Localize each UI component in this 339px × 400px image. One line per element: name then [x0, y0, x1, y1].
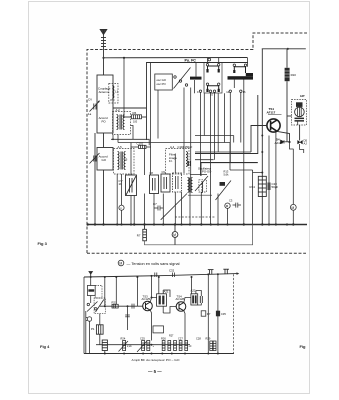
resistor bottom row r3: [147, 341, 150, 351]
capacitor on rail 1: [208, 270, 214, 275]
node rail dots: [261, 135, 263, 137]
transformer A5 dashed box: [114, 149, 135, 175]
meter M3: [225, 203, 230, 208]
transformer FI1 secondary: [208, 86, 219, 92]
link osc line: [188, 194, 212, 196]
svg-text:C7: C7: [153, 202, 157, 206]
svg-text:C101: C101: [137, 141, 144, 145]
capacitor C9: [233, 203, 242, 208]
wire FC input: [113, 107, 147, 109]
wire D4 down: [290, 142, 294, 149]
speaker cone circle: [295, 107, 305, 117]
wire C101: [131, 146, 139, 148]
resistor R21: [112, 304, 118, 308]
wire PU drop: [90, 277, 92, 286]
svg-text:osc PO: osc PO: [157, 82, 167, 86]
svg-text:Antenne: Antenne: [99, 90, 110, 94]
meter M4: [290, 204, 296, 210]
transformer output: [191, 294, 198, 305]
capacitor C33: [200, 296, 202, 303]
wire TS3 emitter: [150, 310, 151, 340]
wire main vertical rail: [261, 49, 263, 225]
filter A4 dashed box: [166, 149, 190, 175]
wire R10 vertical: [286, 49, 288, 68]
link gang diagonal 1: [161, 194, 187, 220]
svg-text:P1: P1: [91, 327, 95, 331]
wire TS1 base: [251, 126, 267, 153]
transformer driver: [157, 294, 167, 306]
jack PU input: [89, 272, 92, 278]
wire driver sec: [162, 306, 164, 313]
diode D7: [201, 311, 206, 316]
speaker HP dashed box: [292, 100, 307, 126]
svg-text:AF117: AF117: [267, 110, 276, 114]
svg-text:C32: C32: [169, 269, 175, 273]
transistor TS4: [176, 302, 186, 312]
node rail junction R10: [287, 48, 289, 50]
wire base line: [100, 305, 143, 307]
note tension: [118, 260, 124, 266]
resistor bottom row r5: [168, 341, 171, 351]
capacitor C30 on drop: [125, 315, 130, 317]
resistor bottom row r1: [123, 341, 126, 351]
wire fig4 mid bus: [96, 344, 190, 346]
svg-text:L1: L1: [115, 90, 119, 94]
svg-text:R6: R6: [133, 111, 137, 115]
svg-text:C3: C3: [229, 199, 233, 203]
meter M5: [172, 232, 178, 238]
svg-text:R27: R27: [169, 335, 174, 338]
fig4 right dashed edge: [233, 274, 235, 353]
jack ecouteur: [87, 317, 91, 321]
capacitor bottom row c6c: [185, 341, 188, 351]
svg-text:Pu. FC: Pu. FC: [185, 58, 197, 62]
node antenna junction: [102, 57, 104, 59]
svg-text:AC128: AC128: [176, 297, 185, 301]
diode D4: [281, 140, 285, 144]
resistor bottom row r4: [162, 341, 165, 351]
wire fig4 top rail: [84, 274, 237, 277]
wire pot down: [99, 334, 101, 345]
oscillator coil: [201, 182, 202, 193]
connector PU box: [87, 286, 95, 296]
wire extra verticals FC: [158, 58, 247, 178]
wire fig4 left edge: [83, 277, 85, 354]
wire R6 to box: [142, 116, 147, 118]
coil L1: [112, 86, 114, 99]
wire accord down: [94, 133, 96, 225]
capacitor trim C103: [161, 174, 170, 192]
block accord GO box: [97, 148, 113, 171]
wire TS3 collector: [150, 298, 156, 303]
transformer FI2 primary: [234, 67, 245, 73]
svg-text:Fig 3: Fig 3: [38, 241, 48, 246]
svg-text:F.I.: F.I.: [169, 159, 173, 163]
wire accord GO down: [103, 170, 105, 225]
transformer A2 dashed box: [113, 112, 131, 135]
transistor TS3: [143, 301, 153, 311]
wire contact drops: [195, 63, 241, 225]
capacitor C101: [139, 145, 147, 148]
node base junction: [127, 305, 129, 307]
wire TS1 collector: [277, 131, 289, 142]
wire fig4 right verticals: [208, 274, 218, 353]
contact circle 13: [208, 58, 211, 61]
svg-text:C28: C28: [196, 337, 201, 341]
svg-text:100: 100: [133, 121, 138, 124]
resistor bottom row r2: [142, 341, 145, 351]
capacitor CV2b variable: [126, 175, 137, 196]
svg-text:Fig: Fig: [300, 344, 307, 349]
capacitor CV1a variable: [90, 101, 100, 112]
wire driver top: [158, 277, 160, 294]
transformer FI1 can box: [204, 63, 222, 94]
wire osc top: [190, 174, 207, 176]
capacitor C7: [154, 206, 163, 211]
capacitor C31 on rail: [155, 273, 157, 278]
svg-text:R24: R24: [121, 337, 126, 341]
wire HP down: [299, 125, 301, 140]
meter V1: [119, 205, 124, 210]
switch contacts: [174, 68, 191, 89]
svg-text:GO: GO: [102, 158, 107, 162]
coil L1 dashed box: [109, 84, 118, 104]
node fig4 dots: [90, 273, 219, 354]
connector dashed box: [95, 286, 102, 299]
svg-text:5,6k: 5,6k: [224, 173, 230, 177]
resistor bottom row r7: [210, 341, 213, 351]
svg-text:M: M: [119, 261, 122, 265]
wire TS3 collector rail drop: [151, 276, 153, 298]
svg-text:Fig 4: Fig 4: [40, 344, 50, 349]
svg-text:M: M: [292, 206, 295, 210]
resistor R14: [258, 176, 266, 196]
wire output top: [191, 277, 193, 294]
wire rail tap R6: [123, 58, 125, 117]
svg-text:HP: HP: [300, 94, 304, 98]
svg-text:R26: R26: [161, 337, 166, 341]
dashed enclosure border: [87, 33, 307, 253]
svg-text:R7: R7: [137, 234, 141, 238]
block FC box: [147, 63, 258, 154]
bus ground: [87, 224, 308, 226]
resistor bottom row r6: [174, 341, 177, 351]
trimmer arrows bottom row: [119, 341, 129, 352]
capacitor C29 on base line: [132, 304, 134, 309]
wire fig4 bottom bus: [84, 353, 234, 355]
wire top rail: [104, 49, 306, 58]
link gang diagonal 2: [216, 181, 232, 201]
transformer FI2 core bar: [228, 76, 254, 79]
wire trim drops: [117, 63, 269, 225]
speaker magnet: [296, 102, 303, 107]
transformer A2 coils: [117, 115, 125, 130]
svg-text:AA119: AA119: [275, 141, 284, 145]
svg-text:M: M: [173, 233, 176, 237]
wire rail drops fig4: [105, 277, 138, 330]
transformer FI1 primary: [208, 66, 219, 73]
capacitor trim C102: [150, 175, 159, 194]
diode D8 on rail: [216, 311, 220, 317]
transformer A5 coils: [118, 152, 126, 170]
wire couplage top: [103, 58, 105, 75]
svg-text:D7: D7: [207, 312, 211, 316]
svg-text:1a: 1a: [88, 112, 92, 116]
pot volume dashed box: [94, 298, 105, 314]
svg-text:R29: R29: [206, 337, 211, 341]
wire output sec: [195, 291, 197, 294]
oscillator block: [201, 163, 258, 176]
wire TS4 collector: [184, 298, 191, 303]
wire horizontals mid: [111, 135, 253, 171]
resistor R7: [143, 229, 147, 241]
switch S1: [87, 302, 98, 312]
transformer osc coils: [188, 178, 193, 193]
diode D5: [298, 140, 303, 144]
block couplage antenne box: [97, 75, 113, 133]
bus lower return: [145, 225, 253, 245]
svg-text:R10: R10: [291, 73, 297, 77]
svg-text:— Tension en volts sans signal: — Tension en volts sans signal: [127, 262, 180, 266]
wire TS1 emitter: [275, 132, 277, 225]
svg-text:50µF: 50µF: [272, 185, 279, 189]
wire TS4 emitter: [184, 311, 185, 345]
feedback box fig4: [153, 326, 164, 333]
svg-text:Ampli BF du récepteur PO – GO: Ampli BF du récepteur PO – GO: [132, 358, 181, 362]
capacitor CV1b variable: [90, 153, 100, 164]
svg-text:+C: +C: [188, 345, 191, 348]
resistor R6: [132, 115, 142, 119]
capacitor on rail 2: [223, 269, 229, 274]
oscillator coil arrow: [195, 176, 208, 191]
resistor bottom row r8: [213, 341, 216, 351]
transistor TS1: [267, 119, 280, 132]
capacitor trim C105 dashed: [173, 173, 182, 192]
node D4 junction: [288, 141, 290, 143]
svg-text:AC125: AC125: [142, 297, 151, 301]
svg-text:— 5 —: — 5 —: [148, 369, 162, 374]
wire R14 top: [253, 170, 263, 173]
wire couplage to accord: [103, 133, 105, 148]
wire A2 secondary out: [131, 126, 134, 140]
svg-text:PO-GO: PO-GO: [202, 169, 212, 173]
core bar left: [190, 77, 202, 80]
capacitor C6: [189, 161, 191, 166]
svg-text:C8: C8: [150, 171, 154, 175]
contact circles row: [199, 90, 242, 92]
wire jack: [89, 321, 91, 353]
antenna: [100, 30, 107, 58]
diode on diagonal: [220, 182, 226, 186]
svg-text:2,2k: 2,2k: [127, 345, 132, 348]
pot P1: [96, 325, 103, 334]
transformer HP core: [295, 118, 305, 120]
switch osc box: [155, 74, 173, 90]
svg-text:C25: C25: [140, 337, 145, 341]
resistor R20: [102, 340, 107, 351]
resistor R10: [285, 68, 290, 81]
svg-text:CV: CV: [88, 98, 92, 102]
capacitor C20: [268, 183, 270, 191]
svg-text:C35: C35: [221, 312, 226, 316]
capacitor C32 on rail: [173, 273, 175, 278]
coil A4: [186, 152, 188, 167]
resistor bottom row r6b: [179, 341, 182, 351]
svg-text:C27: C27: [178, 337, 183, 341]
link gang dashed: [175, 216, 216, 218]
oscillator coil dashed box: [199, 180, 207, 192]
node bus dots: [87, 223, 295, 225]
